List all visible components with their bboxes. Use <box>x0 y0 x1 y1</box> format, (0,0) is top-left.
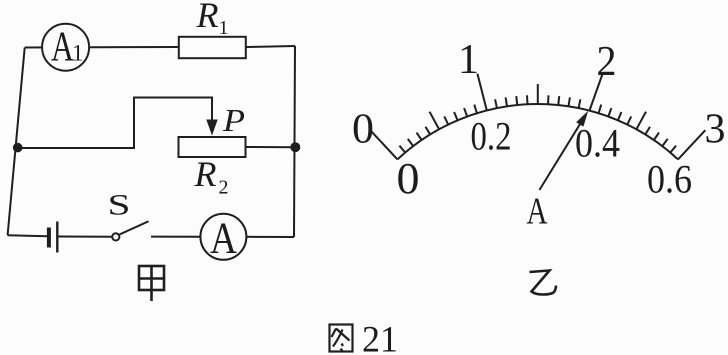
wire top right segment <box>246 46 295 47</box>
svg-text:0: 0 <box>397 154 420 203</box>
scale label 0 inner <box>397 154 420 203</box>
svg-text:1: 1 <box>458 37 479 83</box>
label R1 <box>196 0 229 39</box>
switch S <box>112 221 148 240</box>
ammeter A <box>200 214 246 263</box>
resistor R1 <box>179 37 246 58</box>
svg-text:21: 21 <box>362 320 398 355</box>
label P <box>222 102 245 138</box>
scale label 0 outer <box>352 107 374 153</box>
svg-text:0: 0 <box>352 107 374 153</box>
wire battery to switch <box>59 236 113 238</box>
scale label 3 outer <box>705 107 726 153</box>
node junction dot left <box>13 143 23 153</box>
svg-text:A: A <box>51 25 74 71</box>
scale label 1 outer <box>458 37 479 83</box>
svg-text:S: S <box>108 188 131 221</box>
battery cell <box>49 222 57 253</box>
svg-text:2: 2 <box>597 39 617 85</box>
svg-text:2: 2 <box>219 177 229 199</box>
label A (needle) <box>527 191 548 233</box>
caption figure 21 <box>330 320 399 355</box>
wire switch to ammeter <box>151 236 200 238</box>
scale ticks <box>370 74 705 160</box>
wire R2 to right rail <box>246 146 296 148</box>
label S <box>108 188 131 221</box>
scale label 0.2 inner <box>471 114 512 159</box>
ammeter U1 A1 <box>42 24 89 71</box>
wire top (A1 / R1 branch) <box>25 46 179 49</box>
label R2 <box>194 154 229 199</box>
svg-text:P: P <box>222 102 245 138</box>
node junction dot right <box>290 142 300 152</box>
svg-text:A: A <box>210 214 237 263</box>
svg-text:1: 1 <box>72 41 84 66</box>
meter needle <box>539 111 588 190</box>
label jia (circuit a) <box>139 266 164 301</box>
svg-text:R: R <box>194 154 217 194</box>
wire right rail <box>294 46 295 237</box>
rheostat R2 <box>179 137 246 157</box>
wire wiper branch (node to P) <box>18 98 212 149</box>
scale label 0.6 inner <box>647 157 692 202</box>
scale label 2 outer <box>597 39 617 85</box>
svg-text:R: R <box>196 0 219 35</box>
wiper arrow P <box>206 120 217 136</box>
wire left rail <box>8 48 25 236</box>
svg-text:0.2: 0.2 <box>471 114 512 159</box>
svg-text:0.4: 0.4 <box>575 121 620 166</box>
svg-text:1: 1 <box>219 17 229 39</box>
wire bottom left <box>8 235 48 236</box>
svg-text:3: 3 <box>705 107 726 153</box>
svg-text:0.6: 0.6 <box>647 157 692 202</box>
svg-text:A: A <box>527 191 548 233</box>
meter scale arc <box>398 104 679 159</box>
wire ammeter to right rail <box>246 236 294 238</box>
scale label 0.4 inner <box>575 121 620 166</box>
label yi (meter b) <box>530 271 557 295</box>
